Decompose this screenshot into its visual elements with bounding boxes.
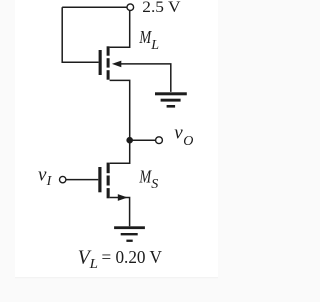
wire source of M_L to node vO	[110, 80, 130, 140]
wire node vO to drain of M_S	[110, 140, 130, 163]
wire left rail to gate of M_L	[62, 7, 98, 62]
terminal output vO	[156, 137, 163, 144]
wire body of M_L to ground	[121, 64, 171, 92]
wire node vO to output terminal	[130, 139, 156, 141]
wire drain of M_L to supply	[110, 11, 130, 48]
svg-text:S: S	[151, 177, 158, 192]
svg-text:L: L	[89, 257, 99, 272]
terminal input vI	[60, 176, 66, 182]
svg-text:O: O	[183, 134, 193, 149]
node vO junction	[126, 137, 133, 144]
wire source of M_S to ground	[110, 198, 130, 227]
transistor M_S	[98, 163, 127, 201]
svg-text:v: v	[174, 122, 183, 143]
svg-text:M: M	[139, 27, 153, 47]
transistor M_L	[99, 46, 122, 79]
svg-text:L: L	[150, 38, 159, 53]
ground at source of M_S	[114, 226, 145, 242]
wire input terminal to gate of M_S	[66, 179, 98, 181]
terminal supply 2.5 V	[127, 4, 134, 11]
svg-text:2.5 V: 2.5 V	[142, 0, 181, 16]
wire top rail	[62, 6, 127, 8]
ground at body of M_L	[155, 92, 187, 107]
svg-text:= 0.20 V: = 0.20 V	[102, 247, 163, 267]
